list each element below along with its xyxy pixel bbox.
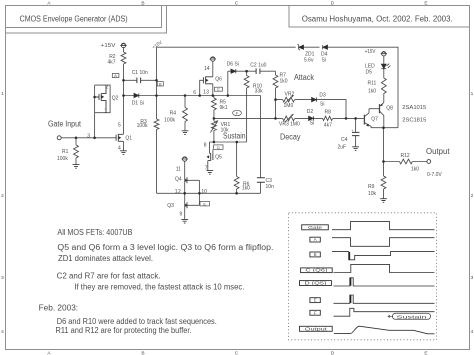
svg-text:Si: Si [320, 102, 324, 108]
svg-text:4: 4 [118, 146, 121, 152]
svg-text:3: 3 [1, 275, 4, 281]
svg-text:Q3: Q3 [167, 203, 174, 209]
svg-text:0-7.0V: 0-7.0V [427, 172, 442, 178]
svg-text:D: D [331, 1, 335, 7]
svg-text:2: 2 [105, 85, 108, 91]
svg-text:2: 2 [471, 193, 474, 199]
svg-text:E: E [314, 298, 317, 303]
svg-text:R11: R11 [368, 81, 377, 87]
svg-text:2SA1015: 2SA1015 [402, 105, 426, 111]
svg-text:A: A [114, 73, 117, 78]
svg-text:5: 5 [118, 123, 121, 129]
svg-text:Attack: Attack [294, 73, 315, 82]
svg-text:Q4: Q4 [175, 177, 182, 183]
svg-text:2uF: 2uF [338, 145, 347, 151]
svg-text:B: B [141, 1, 144, 7]
svg-text:VR3 1M0: VR3 1M0 [279, 122, 300, 128]
svg-text:R4: R4 [170, 111, 177, 117]
svg-text:D (Q5): D (Q5) [304, 281, 327, 286]
svg-text:Gate Input: Gate Input [48, 120, 82, 129]
svg-text:D: D [217, 145, 220, 150]
svg-text:C (Q6): C (Q6) [305, 268, 328, 273]
svg-text:C: C [217, 87, 220, 92]
svg-text:100k: 100k [57, 156, 68, 162]
svg-text:Si: Si [322, 58, 326, 64]
svg-text:12: 12 [175, 189, 181, 195]
svg-text:D2: D2 [307, 109, 314, 115]
svg-text:1k0: 1k0 [280, 79, 288, 85]
svg-text:A: A [314, 237, 317, 242]
svg-text:2: 2 [1, 193, 4, 199]
svg-text:C: C [235, 1, 239, 7]
svg-text:All MOS FETs: 4007UB: All MOS FETs: 4007UB [57, 228, 132, 237]
svg-text:8: 8 [204, 142, 207, 148]
svg-text:Q8: Q8 [386, 106, 393, 112]
svg-text:R9: R9 [368, 184, 375, 190]
svg-text:+: + [351, 129, 353, 133]
svg-text:Q1: Q1 [125, 136, 132, 142]
svg-text:Q6: Q6 [215, 77, 222, 83]
svg-text:6: 6 [193, 90, 196, 96]
svg-text:D6 and R10 were added to track: D6 and R10 were added to track fast sequ… [57, 317, 217, 326]
svg-text:VR2: VR2 [285, 91, 295, 97]
svg-text:ZD1 dominates attack level.: ZD1 dominates attack level. [58, 254, 153, 263]
svg-text:13: 13 [203, 90, 209, 96]
svg-text:10: 10 [201, 189, 207, 195]
svg-text:Si: Si [310, 121, 314, 127]
svg-text:10n: 10n [266, 184, 275, 190]
svg-text:E: E [424, 351, 427, 355]
svg-text:1k0: 1k0 [368, 89, 376, 95]
svg-text:4: 4 [1, 329, 4, 335]
svg-text:B: B [314, 252, 317, 257]
svg-text:R12: R12 [401, 153, 410, 159]
svg-text:Feb. 2003:: Feb. 2003: [39, 303, 79, 312]
svg-text:E: E [203, 201, 206, 206]
svg-text:Sustain: Sustain [397, 314, 428, 319]
svg-text:D1 Si: D1 Si [132, 101, 144, 107]
svg-text:F: F [314, 310, 317, 315]
svg-text:R11 and R12 are for protecting: R11 and R12 are for protecting the buffe… [56, 326, 192, 335]
svg-text:14: 14 [204, 66, 210, 72]
svg-text:Q5: Q5 [215, 155, 222, 161]
svg-text:1: 1 [1, 91, 4, 97]
svg-text:10k: 10k [368, 191, 377, 197]
svg-text:1: 1 [104, 109, 107, 115]
svg-text:C2 1u0: C2 1u0 [250, 63, 266, 69]
svg-text:+15V: +15V [365, 49, 376, 55]
svg-text:7: 7 [205, 166, 208, 172]
svg-text:4k7: 4k7 [324, 123, 332, 129]
svg-text:C2 and R7 are for fast attack.: C2 and R7 are for fast attack. [57, 271, 161, 280]
svg-text:C1 10n: C1 10n [132, 70, 148, 76]
svg-text:Q2: Q2 [112, 96, 119, 102]
svg-text:Output: Output [426, 147, 450, 156]
svg-text:R8: R8 [325, 109, 332, 115]
svg-text:Sustain: Sustain [223, 132, 246, 141]
svg-text:100k: 100k [164, 118, 175, 124]
svg-text:9: 9 [180, 212, 183, 218]
svg-text:Q5 and Q6 form a 3 level logic: Q5 and Q6 form a 3 level logic. Q3 to Q6… [57, 243, 273, 252]
svg-text:3: 3 [471, 275, 474, 281]
svg-text:2SC1815: 2SC1815 [402, 117, 426, 123]
svg-text:E: E [424, 1, 427, 7]
svg-text:1M0: 1M0 [284, 103, 294, 109]
svg-text:C: C [235, 351, 239, 355]
svg-text:D3: D3 [319, 92, 326, 98]
svg-text:B: B [141, 351, 144, 355]
svg-text:1k0: 1k0 [411, 167, 419, 173]
svg-text:Osamu Hoshuyama, Oct. 2002.: Osamu Hoshuyama, Oct. 2002. Feb. 2003. [302, 15, 453, 24]
svg-text:D: D [331, 351, 335, 355]
svg-text:D5: D5 [366, 70, 373, 76]
svg-text:If they are removed, the faste: If they are removed, the fastest attack … [74, 282, 244, 291]
svg-text:1: 1 [471, 91, 474, 97]
svg-text:3: 3 [87, 133, 90, 139]
svg-text:D6 Si: D6 Si [227, 62, 239, 68]
svg-text:100k: 100k [137, 123, 148, 129]
svg-text:1k0: 1k0 [242, 186, 250, 192]
svg-text:+15V: +15V [101, 43, 117, 49]
svg-text:B: B [159, 81, 162, 86]
svg-text:Gate: Gate [308, 225, 323, 230]
svg-text:R1: R1 [62, 149, 69, 155]
svg-text:33k: 33k [255, 89, 264, 95]
svg-text:5.6v: 5.6v [304, 58, 314, 64]
svg-text:4k7: 4k7 [108, 59, 116, 65]
svg-text:Q7: Q7 [371, 117, 378, 123]
svg-text:11: 11 [176, 166, 181, 172]
svg-text:Decay: Decay [280, 133, 301, 142]
svg-text:C4: C4 [341, 137, 348, 143]
svg-text:9k1: 9k1 [220, 105, 228, 111]
svg-text:CMOS Envelope Generator (ADS): CMOS Envelope Generator (ADS) [20, 15, 128, 24]
svg-text:Output: Output [305, 326, 328, 331]
svg-text:4: 4 [471, 329, 474, 335]
